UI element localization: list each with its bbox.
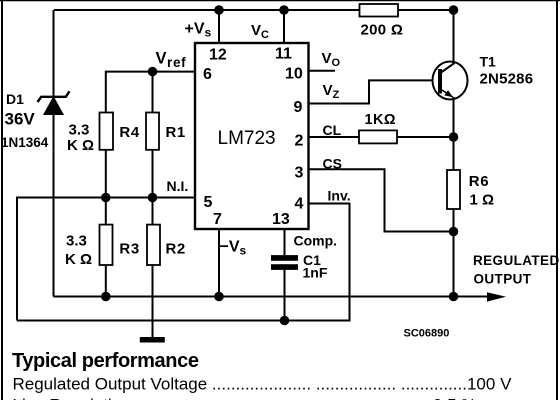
node C1 return junction <box>280 316 290 326</box>
resistor R3 <box>100 225 140 265</box>
wire R6 to CS node <box>453 209 455 232</box>
svg-text:200 Ω: 200 Ω <box>361 22 404 39</box>
svg-text:1nF: 1nF <box>303 265 328 281</box>
label D1 values <box>1 91 49 150</box>
wire R4 bottom <box>105 150 107 198</box>
svg-text:2N5286: 2N5286 <box>480 71 534 88</box>
svg-text:R3: R3 <box>119 241 139 258</box>
wire pin13 <box>284 229 286 255</box>
svg-text:1KΩ: 1KΩ <box>365 112 396 128</box>
svg-text:3: 3 <box>295 165 304 182</box>
wire pin11 <box>283 10 285 43</box>
node CS R6 junction <box>449 227 459 237</box>
zener diode D1 <box>38 91 70 114</box>
svg-text:5: 5 <box>204 194 213 211</box>
svg-text:K Ω: K Ω <box>65 251 92 268</box>
svg-text:Inv.: Inv. <box>328 188 351 204</box>
wire top rail <box>54 9 454 11</box>
IC U1 LM723 <box>195 43 309 229</box>
node bottom rail R3 junction <box>101 292 111 302</box>
svg-text:N.I.: N.I. <box>167 178 189 194</box>
svg-text:D1: D1 <box>6 91 24 107</box>
wire Inv horizontal <box>309 203 351 205</box>
label T1 <box>480 54 534 88</box>
svg-text:6: 6 <box>203 66 212 83</box>
wire pin7 <box>218 229 220 297</box>
svg-text:CL: CL <box>323 122 342 138</box>
node output junction <box>449 292 459 302</box>
node NI R4R3 junction <box>101 193 111 203</box>
capacitor C1 <box>271 252 328 281</box>
svg-text:OUTPUT: OUTPUT <box>474 272 532 287</box>
wire left drop <box>16 197 18 321</box>
wire Vref <box>106 71 195 73</box>
node Vref R1 junction <box>148 67 158 77</box>
resistor R1 <box>146 113 186 150</box>
wire lower return rail <box>17 320 350 322</box>
ground <box>140 337 165 343</box>
wire C1 bottom <box>284 270 286 321</box>
wire pin3 CS <box>309 169 454 231</box>
svg-text:R4: R4 <box>119 124 139 141</box>
node top +Vs junction <box>214 5 224 15</box>
wire D1 bottom <box>53 114 55 297</box>
wire R4 top <box>105 71 107 113</box>
svg-text:T1: T1 <box>480 54 497 70</box>
resistor 200 Ohm <box>360 4 404 39</box>
svg-text:11: 11 <box>275 46 292 63</box>
svg-text:Comp.: Comp. <box>294 233 338 249</box>
svg-text:SC06890: SC06890 <box>404 328 450 340</box>
wire CS node to output node <box>453 232 455 297</box>
wire collector <box>453 10 455 64</box>
svg-text:K Ω: K Ω <box>67 137 94 154</box>
wire Inv riser <box>349 204 351 322</box>
svg-text:3.3: 3.3 <box>66 233 87 250</box>
resistor 1K Ohm <box>359 112 397 143</box>
wire R2 top <box>152 198 154 225</box>
node top collector junction <box>449 5 459 15</box>
svg-text:3.3: 3.3 <box>69 122 90 139</box>
svg-text:R6: R6 <box>469 173 489 190</box>
node CL emitter junction <box>449 132 459 142</box>
svg-text:2: 2 <box>295 133 304 150</box>
wire pin9 to base <box>309 80 434 103</box>
svg-text:13: 13 <box>272 211 290 228</box>
svg-text:CS: CS <box>323 156 342 172</box>
output arrow <box>487 292 506 301</box>
wire NI line <box>17 197 195 199</box>
svg-text:LM723: LM723 <box>218 128 276 149</box>
wire pin10 stub <box>309 70 336 72</box>
wire R3 top <box>105 198 107 225</box>
label REGULATED OUTPUT <box>473 253 560 287</box>
svg-text:4: 4 <box>295 196 304 213</box>
transistor T1 <box>433 62 468 100</box>
label 3.3 KOhm upper <box>67 122 94 155</box>
resistor R4 <box>100 113 140 150</box>
svg-text:1 Ω: 1 Ω <box>470 192 495 209</box>
node bottom rail -Vs junction <box>214 292 224 302</box>
wire pin2 CL <box>309 136 454 138</box>
wire R1 bottom <box>152 150 154 198</box>
svg-text:1N1364: 1N1364 <box>1 135 49 150</box>
wire D1 top <box>53 10 55 96</box>
resistor R2 <box>147 225 186 265</box>
svg-text:12: 12 <box>209 47 227 64</box>
resistor R6 <box>447 170 494 209</box>
node top VC junction <box>279 5 289 15</box>
wire pin12 <box>218 10 220 43</box>
label 3.3 KOhm lower <box>65 233 92 269</box>
wire emitter column <box>453 97 455 170</box>
svg-text:Typical performance: Typical performance <box>12 350 199 372</box>
node NI R1R2 junction <box>148 193 158 203</box>
wire R2 to ground <box>152 265 154 337</box>
svg-text:R1: R1 <box>166 124 186 141</box>
svg-text:REGULATED: REGULATED <box>473 253 560 268</box>
svg-text:10: 10 <box>285 66 303 83</box>
svg-text:36V: 36V <box>5 110 36 129</box>
svg-text:Line Regulation ..............: Line Regulation ..................... ..… <box>13 396 477 400</box>
wire R3 bottom <box>105 265 107 297</box>
svg-text:7: 7 <box>213 211 222 228</box>
svg-text:Regulated Output Voltage .....: Regulated Output Voltage ...............… <box>13 375 513 394</box>
wire R1 top <box>152 72 154 113</box>
wire bottom rail <box>54 296 491 298</box>
svg-text:R2: R2 <box>166 241 186 258</box>
svg-text:9: 9 <box>294 99 303 116</box>
